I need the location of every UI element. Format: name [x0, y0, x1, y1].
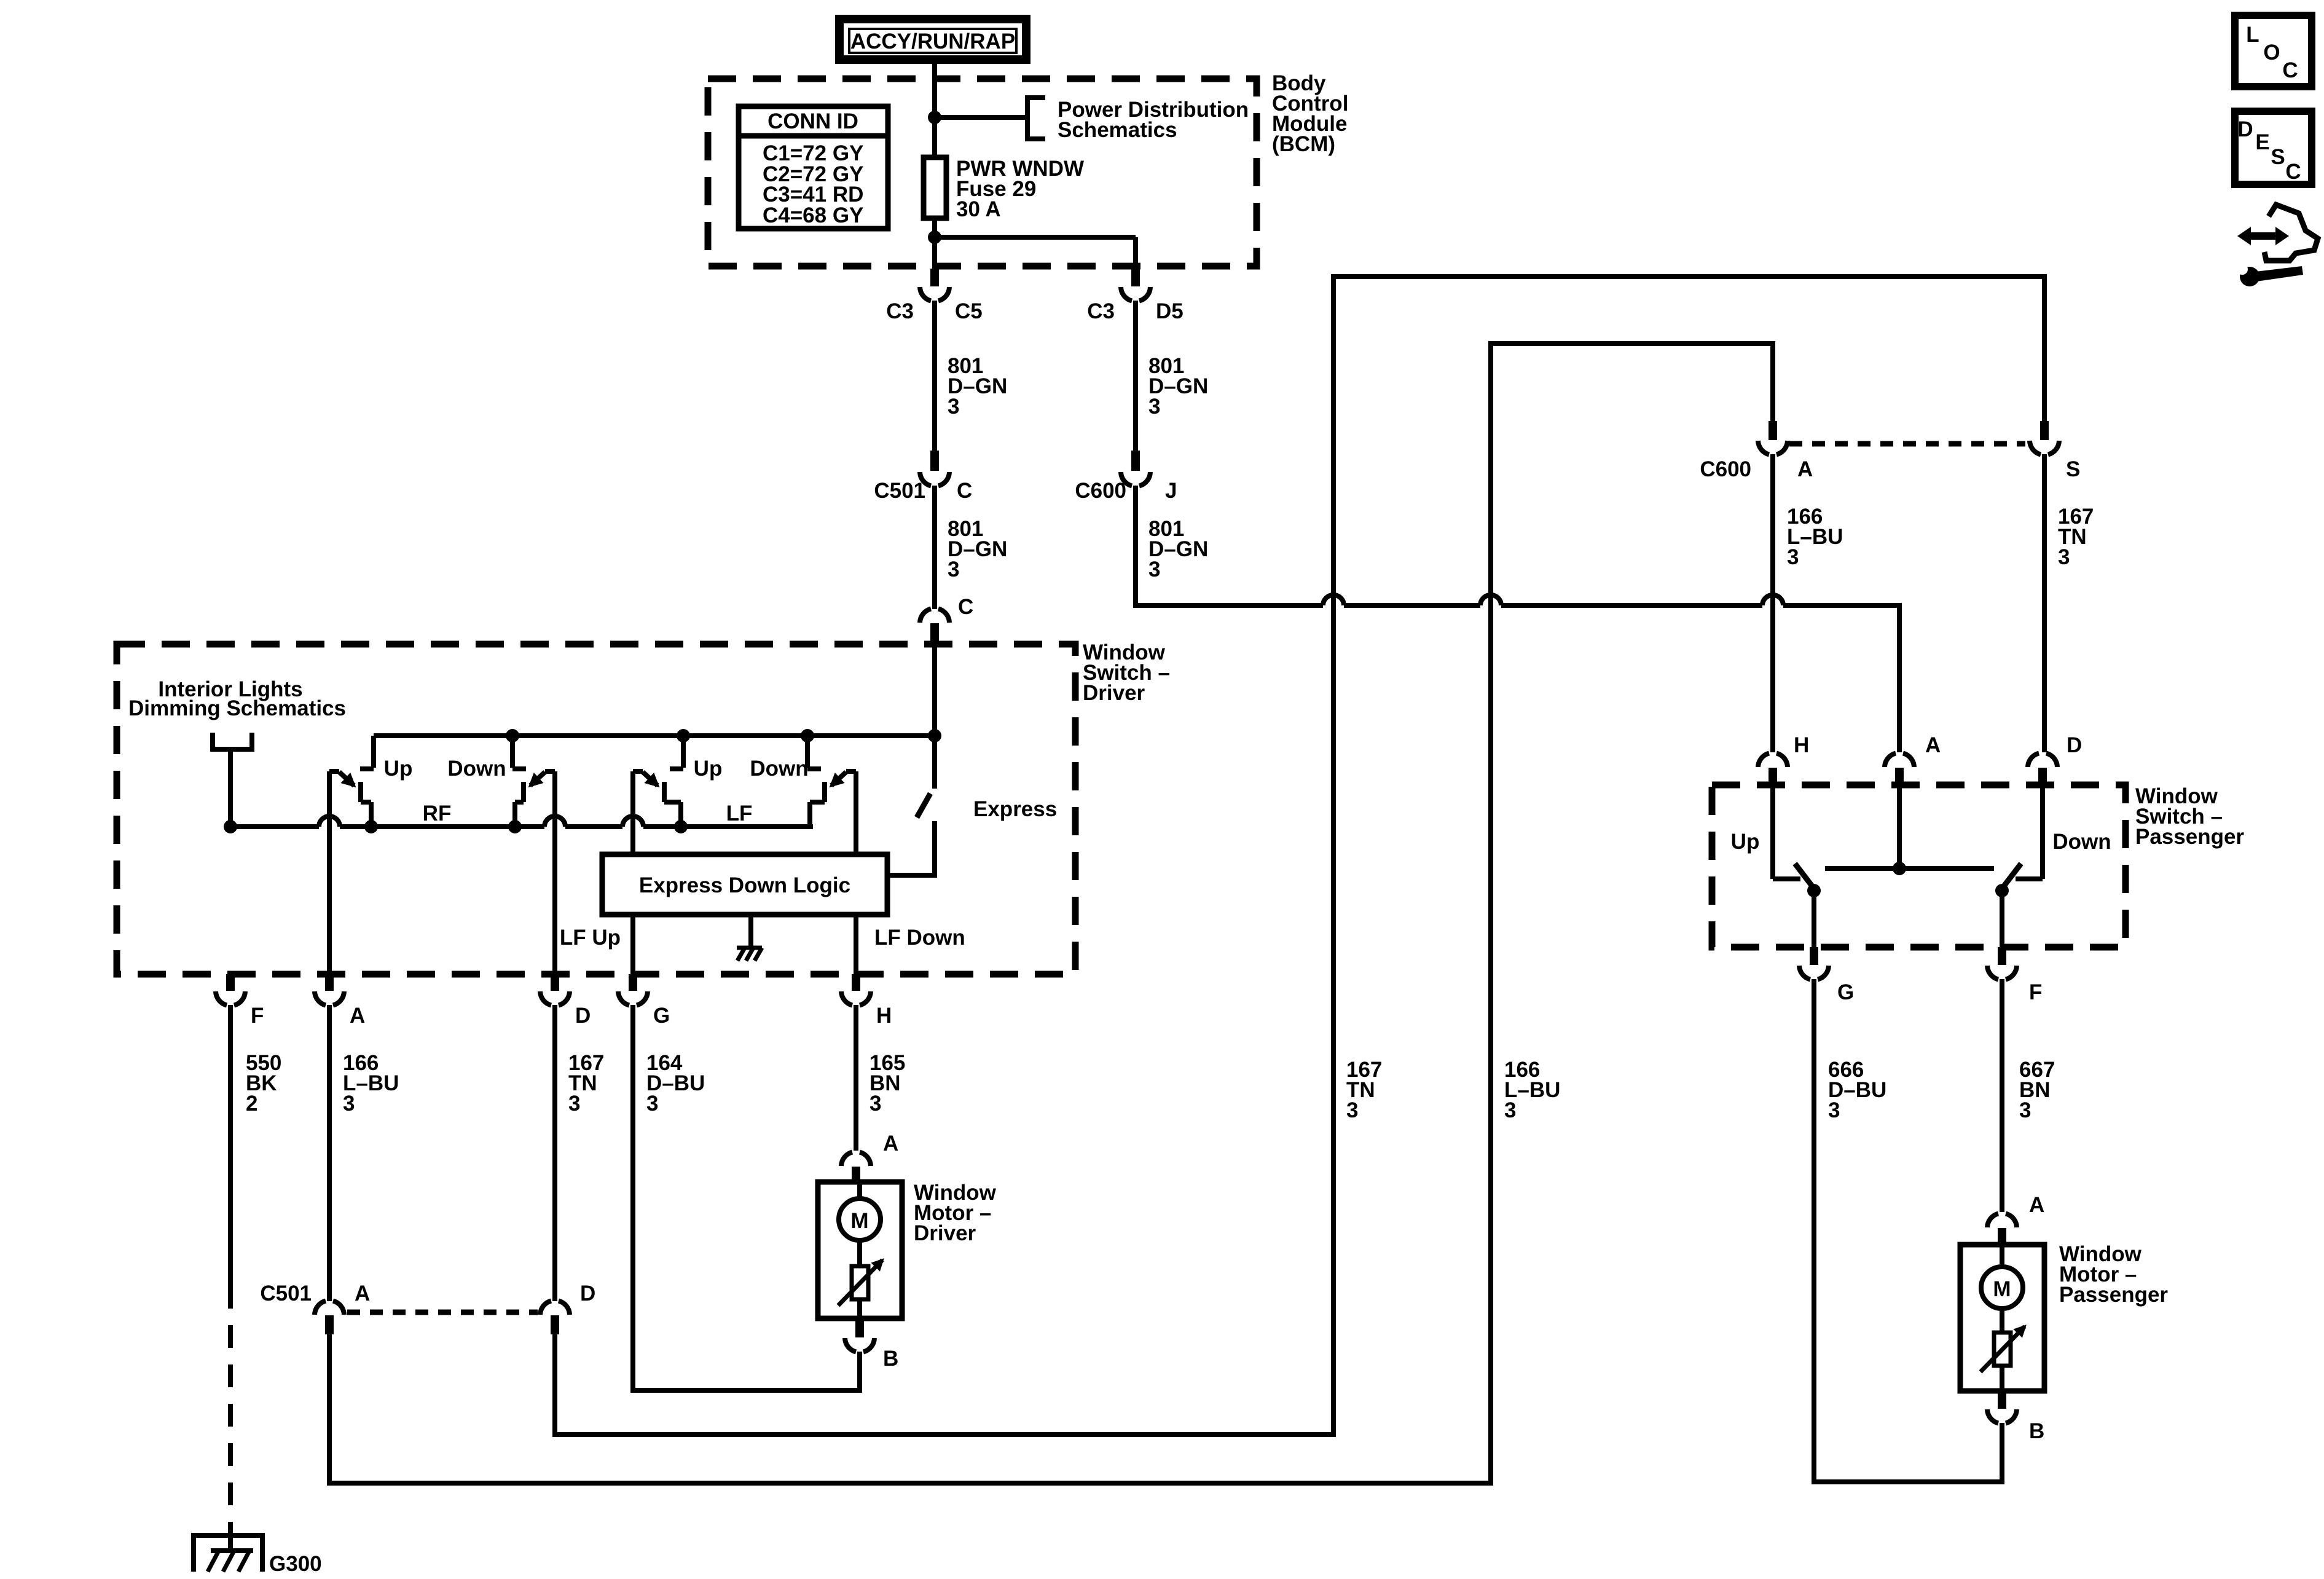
- svg-text:LF Down: LF Down: [874, 926, 965, 950]
- wire 167 TN 3 (S to passenger switch D): [2042, 454, 2047, 752]
- svg-text:C: C: [957, 479, 972, 503]
- wire 550 BK 2: [228, 1005, 233, 1286]
- svg-text:LF: LF: [726, 801, 753, 825]
- svg-text:Schematics: Schematics: [1058, 118, 1177, 142]
- svg-text:2: 2: [246, 1092, 257, 1116]
- connector pin B (window motor passenger): [1998, 1391, 2006, 1409]
- wire from C600-J to passenger switch A, horizontal run: [1133, 603, 1323, 608]
- svg-text:A: A: [350, 1004, 365, 1028]
- wire 165 BN 3 (driver H to motor): [854, 1005, 858, 1151]
- switch RF Down (driver): [510, 736, 515, 768]
- wire 166 L-BU 3 (C600 A to passenger switch H): [1770, 454, 1775, 752]
- svg-text:Express: Express: [973, 797, 1057, 821]
- connector pin G (passenger switch): [1810, 947, 1818, 965]
- svg-text:RF: RF: [423, 801, 452, 825]
- wire 166 L-BU 3 (driver A): [327, 1005, 332, 1301]
- svg-text:G: G: [1837, 980, 1854, 1004]
- component box: Window Switch - Passenger, dashed: [1712, 785, 2126, 947]
- wire D riser through bus (movable of RF Down): [552, 771, 557, 974]
- svg-text:C501: C501: [260, 1282, 312, 1305]
- thermistor (driver motor): [852, 1266, 868, 1299]
- Express switch: [932, 736, 937, 787]
- horizontal wire 166 L-BU (to C600 A): [1488, 341, 1775, 346]
- connector pin A (driver switch): [325, 974, 334, 991]
- node on bus at F wire: [224, 820, 237, 833]
- svg-text:C501: C501: [874, 479, 925, 503]
- wire 666 D-BU 3: [1812, 979, 1816, 1484]
- svg-text:Driver: Driver: [914, 1221, 976, 1245]
- wire LF Down output (H): [854, 915, 858, 974]
- component box: Window Switch - Driver, dashed: [117, 644, 1075, 974]
- wire 167 TN 3 (driver D): [552, 1005, 557, 1301]
- node: split to second BCM output: [928, 230, 941, 244]
- power source box ACCY/RUN/RAP: [839, 19, 1026, 60]
- module box: Body Control Module (BCM), dashed: [708, 79, 1257, 266]
- driver switch top feed bus: [374, 733, 935, 738]
- movable wire of LF Down switch to Express Down Logic: [854, 771, 858, 854]
- connector C600 pin J: [1131, 451, 1140, 471]
- svg-text:Driver: Driver: [1083, 681, 1145, 705]
- svg-text:F: F: [2029, 980, 2042, 1004]
- passenger switch Up: [1770, 785, 1775, 879]
- connector C3 pin D5 (BCM right output): [1131, 269, 1140, 286]
- dashed connector link C501 A-D: [347, 1310, 538, 1315]
- svg-text:D5: D5: [1156, 299, 1184, 323]
- connector C600 pin A (passenger): [1770, 341, 1775, 421]
- ground stub from Express Down Logic: [748, 915, 753, 947]
- svg-text:A: A: [1797, 457, 1813, 481]
- switch RF Up (driver): [371, 736, 376, 768]
- svg-text:3: 3: [948, 395, 959, 419]
- switch LF Down (driver): [805, 736, 810, 768]
- svg-text:B: B: [883, 1347, 898, 1371]
- svg-text:Down: Down: [447, 757, 506, 781]
- svg-text:D: D: [580, 1282, 595, 1305]
- driver switch lower common bus with hops: [230, 824, 319, 829]
- svg-text:M: M: [1993, 1277, 2011, 1301]
- svg-text:Up: Up: [1731, 830, 1760, 854]
- wire from C501 A to passenger riser: [327, 1334, 332, 1483]
- svg-text:C: C: [2282, 58, 2298, 82]
- switch LF Up (driver): [681, 736, 686, 768]
- svg-text:O: O: [2263, 41, 2280, 65]
- icon: DESC reference box: [2235, 111, 2312, 184]
- logic block: Express Down Logic: [602, 854, 887, 915]
- wire from ACCY/RUN/RAP into BCM: [932, 63, 937, 157]
- svg-text:C: C: [2285, 160, 2301, 184]
- svg-text:Up: Up: [384, 757, 413, 781]
- motor: Window Motor - Passenger: [1960, 1245, 2044, 1391]
- vertical wire 167 TN 3 long riser: [1331, 274, 1336, 1437]
- movable wire of LF Up switch to Express Down Logic: [630, 771, 635, 854]
- svg-text:D: D: [2237, 117, 2253, 141]
- svg-text:C: C: [958, 595, 973, 619]
- connector pin B (window motor driver): [855, 1318, 864, 1337]
- svg-text:ACCY/RUN/RAP: ACCY/RUN/RAP: [850, 30, 1015, 53]
- svg-text:C600: C600: [1075, 479, 1126, 503]
- svg-text:G: G: [653, 1004, 670, 1028]
- wire branch right inside BCM: [935, 235, 1136, 240]
- node: junction to power distribution: [928, 111, 941, 124]
- svg-text:C5: C5: [955, 299, 983, 323]
- wire 801 D-GN 3 (left): [932, 301, 937, 451]
- svg-text:3: 3: [568, 1092, 580, 1116]
- connector pin G (driver switch): [629, 974, 637, 991]
- connector pin H (driver switch): [852, 974, 860, 991]
- wire 164 D-BU 3 (driver G): [630, 1005, 635, 1390]
- svg-text:G300: G300: [269, 1552, 322, 1576]
- svg-text:Express Down Logic: Express Down Logic: [639, 873, 850, 897]
- svg-text:E: E: [2255, 130, 2269, 154]
- wire below fuse: [932, 218, 937, 269]
- wire A riser through bus (movable of RF Up): [327, 771, 332, 974]
- connector pin S: [2042, 274, 2047, 421]
- svg-text:C4=68 GY: C4=68 GY: [763, 203, 863, 227]
- svg-text:C600: C600: [1700, 457, 1751, 481]
- wire motor B loop to driver G: [857, 1352, 862, 1393]
- thermistor (passenger motor): [1994, 1333, 2011, 1366]
- svg-text:L: L: [2246, 23, 2259, 47]
- svg-text:3: 3: [1148, 557, 1160, 581]
- svg-text:F: F: [251, 1004, 264, 1028]
- wire 801 D-GN 3 (below C600): [1133, 486, 1138, 608]
- svg-text:M: M: [850, 1209, 868, 1233]
- connector pin F (driver switch): [226, 974, 235, 991]
- wire 667 BN 3: [2000, 979, 2004, 1212]
- wire branch to Power Distribution Schematics: [935, 115, 1027, 120]
- wire from bracket to driver switch bus: [228, 749, 233, 827]
- svg-text:S: S: [2271, 145, 2285, 169]
- ground G300: [228, 1527, 233, 1551]
- svg-text:J: J: [1165, 479, 1177, 503]
- svg-text:3: 3: [2058, 545, 2070, 569]
- svg-text:Down: Down: [2052, 830, 2111, 854]
- svg-text:30 A: 30 A: [956, 197, 1001, 221]
- svg-text:3: 3: [1346, 1098, 1358, 1122]
- svg-text:CONN ID: CONN ID: [767, 109, 858, 133]
- connector C3 pin C5 (BCM left output): [930, 269, 939, 286]
- svg-text:B: B: [2029, 1419, 2044, 1443]
- svg-text:3: 3: [343, 1092, 355, 1116]
- svg-text:3: 3: [948, 557, 959, 581]
- svg-text:A: A: [883, 1132, 898, 1156]
- svg-text:3: 3: [1504, 1098, 1516, 1122]
- svg-text:D: D: [2067, 733, 2082, 757]
- passenger switch Down: [2040, 785, 2045, 879]
- wire into driver switch to bus: [932, 647, 937, 789]
- motor: Window Motor - Driver: [818, 1182, 902, 1318]
- svg-text:S: S: [2066, 457, 2080, 481]
- svg-text:A: A: [2029, 1193, 2044, 1217]
- svg-text:3: 3: [1148, 395, 1160, 419]
- fuse PWR WNDW Fuse 29 30 A: [924, 157, 946, 218]
- connector pin F (passenger switch): [1998, 947, 2006, 965]
- svg-text:Down: Down: [750, 757, 808, 781]
- svg-text:Up: Up: [694, 757, 723, 781]
- passenger switch common bus: [1897, 785, 1902, 868]
- svg-text:Dimming Schematics: Dimming Schematics: [128, 696, 346, 720]
- svg-text:(BCM): (BCM): [1272, 132, 1335, 156]
- svg-text:3: 3: [2019, 1098, 2031, 1122]
- wire motor B loop to passenger G: [2000, 1423, 2004, 1484]
- svg-text:3: 3: [1828, 1098, 1840, 1122]
- top-right horizontal wire 167 TN (to S): [1331, 274, 2047, 279]
- svg-text:3: 3: [870, 1092, 881, 1116]
- icon: LOC reference box: [2235, 15, 2312, 87]
- off-page bracket (interior lights): [210, 733, 215, 752]
- vertical wire 166 L-BU 3 long riser: [1488, 341, 1493, 1486]
- svg-text:LF Up: LF Up: [560, 926, 621, 950]
- svg-text:D: D: [575, 1004, 591, 1028]
- svg-text:3: 3: [646, 1092, 658, 1116]
- CONN ID table: [739, 106, 888, 229]
- svg-text:3: 3: [1787, 545, 1799, 569]
- off-page bracket: Power Distribution Schematics: [1025, 95, 1030, 141]
- svg-text:H: H: [1794, 733, 1809, 757]
- svg-text:A: A: [355, 1282, 370, 1305]
- svg-text:Passenger: Passenger: [2135, 825, 2244, 849]
- wire 801 D-GN 3 (right): [1133, 301, 1138, 451]
- icon: hand with arrow and wrench: [2264, 205, 2318, 261]
- svg-text:A: A: [1925, 733, 1941, 757]
- wire 801 D-GN 3 (below C501): [932, 486, 937, 608]
- wire LF Up output (G): [630, 915, 635, 974]
- svg-text:Passenger: Passenger: [2059, 1283, 2168, 1307]
- svg-text:C3: C3: [886, 299, 914, 323]
- svg-text:C3: C3: [1087, 299, 1115, 323]
- svg-text:H: H: [876, 1004, 892, 1028]
- connector C501 pin C: [930, 451, 939, 471]
- wire from C501 D to passenger riser: [552, 1334, 557, 1435]
- connector pin D (driver switch): [551, 974, 559, 991]
- dashed connector link C600 A to S: [1789, 441, 2025, 447]
- connector C501 pin D (second row): [540, 1301, 570, 1315]
